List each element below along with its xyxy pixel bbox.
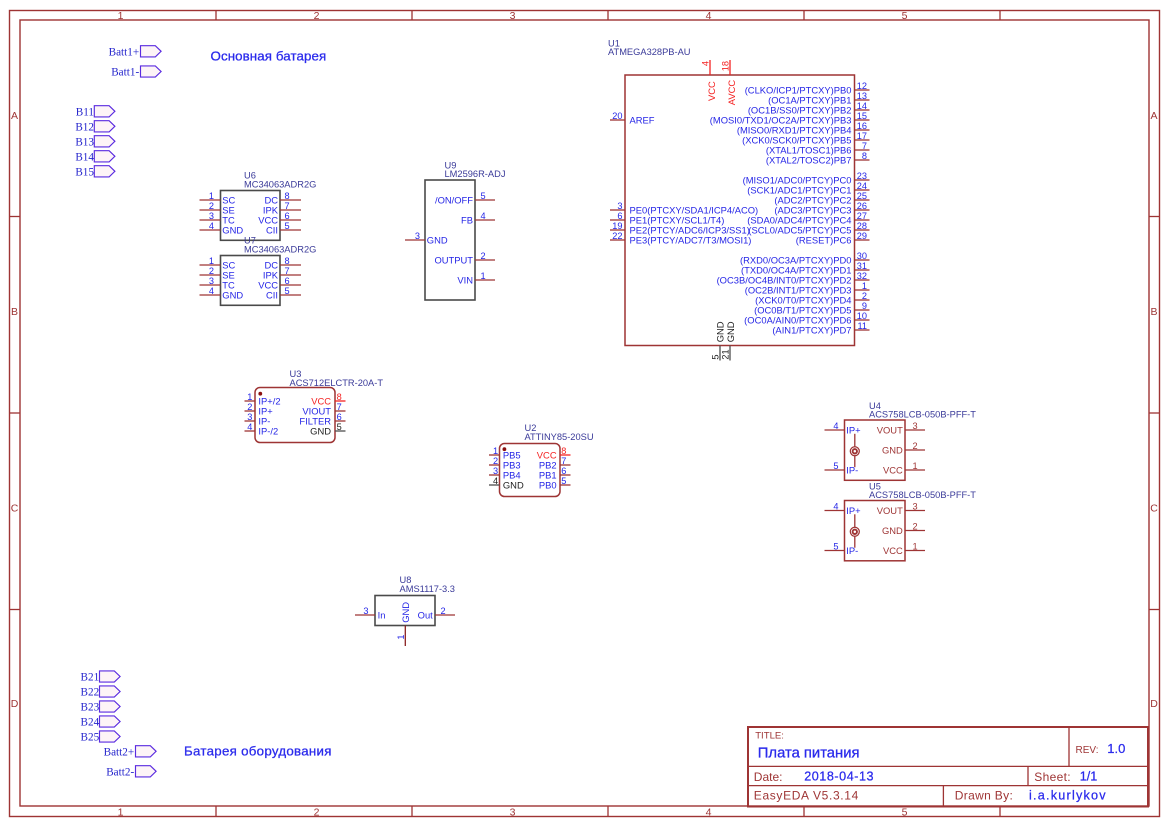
svg-text:AMS1117-3.3: AMS1117-3.3 xyxy=(400,584,455,594)
svg-text:PB0: PB0 xyxy=(539,480,557,491)
U4 pin 3 (VOUT) xyxy=(877,421,925,436)
svg-text:/ON/OFF: /ON/OFF xyxy=(435,195,473,206)
svg-text:1: 1 xyxy=(209,256,214,266)
U6 pin 1 (SC) xyxy=(200,191,236,206)
svg-text:3: 3 xyxy=(493,466,498,476)
U8 pin 2 (Out) xyxy=(418,606,455,621)
svg-text:B25: B25 xyxy=(81,732,100,744)
svg-text:Плата питания: Плата питания xyxy=(758,745,860,761)
net port B12 xyxy=(75,121,115,134)
frame bottom ruler ticks xyxy=(216,806,1000,817)
U9 pin 1 (VIN) xyxy=(457,271,495,286)
U7 pin 2 (SE) xyxy=(200,266,235,281)
svg-text:1: 1 xyxy=(209,191,214,201)
svg-text:(AIN1/PTCXY)PD7: (AIN1/PTCXY)PD7 xyxy=(772,325,851,336)
U9 pin 2 (OUTPUT) xyxy=(434,251,495,266)
svg-text:OUTPUT: OUTPUT xyxy=(434,255,473,266)
svg-text:TITLE:: TITLE: xyxy=(755,731,784,742)
IC body U1 xyxy=(625,75,855,346)
svg-text:7: 7 xyxy=(862,141,867,151)
U6 pin 2 (SE) xyxy=(200,201,235,216)
svg-text:4: 4 xyxy=(493,476,498,486)
U4 pin 5 (IP-) xyxy=(825,461,859,476)
svg-text:25: 25 xyxy=(857,191,867,201)
net port B24 xyxy=(81,716,121,729)
svg-text:1: 1 xyxy=(481,271,486,281)
svg-text:3: 3 xyxy=(510,10,516,22)
svg-text:3: 3 xyxy=(415,231,420,241)
svg-text:(RESET)PC6: (RESET)PC6 xyxy=(796,235,852,246)
svg-text:ACS758LCB-050B-PFF-T: ACS758LCB-050B-PFF-T xyxy=(869,490,976,500)
svg-text:GND: GND xyxy=(400,602,411,623)
svg-text:3: 3 xyxy=(913,421,918,431)
U1 pin 13 ((OC1A/PTCXY)PB1) xyxy=(768,91,869,106)
U1 pin 19 (PE2(PTCY/ADC6/ICP3/SS1)) xyxy=(610,221,750,236)
U5 pin 1 (VCC) xyxy=(883,541,925,556)
U6 pin 3 (TC) xyxy=(200,211,236,226)
svg-text:Drawn By:: Drawn By: xyxy=(955,789,1013,803)
svg-text:2: 2 xyxy=(862,291,867,301)
U1 pin 14 ((OC1B/SS0/PTCXY)PB2) xyxy=(748,101,870,116)
svg-text:8: 8 xyxy=(862,151,867,161)
part reference U1 xyxy=(608,38,620,48)
svg-text:5: 5 xyxy=(833,541,838,551)
U1 pin 17 ((XCK0/SCK0/PTCXY)PB5) xyxy=(742,131,869,146)
svg-text:2: 2 xyxy=(913,521,918,531)
svg-text:5: 5 xyxy=(902,10,908,22)
svg-text:GND: GND xyxy=(882,445,903,456)
U1 pin 22 (PE3(PTCY/ADC7/T3/MOSI1)) xyxy=(610,231,751,246)
svg-text:FB: FB xyxy=(461,215,473,226)
frame left row letters A-D xyxy=(11,110,19,710)
U2 pin 4 (GND) xyxy=(489,476,524,491)
svg-text:VOUT: VOUT xyxy=(877,505,903,516)
IC body U2 xyxy=(500,444,561,497)
U5 pin 4 (IP+) xyxy=(825,501,862,516)
svg-text:(XTAL2/TOSC2)PB7: (XTAL2/TOSC2)PB7 xyxy=(766,155,852,166)
svg-text:Batt1+: Batt1+ xyxy=(109,46,140,58)
svg-text:2018-04-13: 2018-04-13 xyxy=(804,770,874,784)
U1 pin 18 (AVCC) xyxy=(721,60,737,105)
svg-text:4: 4 xyxy=(247,422,252,432)
svg-text:4: 4 xyxy=(706,10,712,22)
svg-text:LM2596R-ADJ: LM2596R-ADJ xyxy=(445,169,506,179)
title block sheet value 1/1 xyxy=(1080,770,1098,784)
U1 pin 26 ((ADC3/PTCY)PC3) xyxy=(774,201,869,216)
IC body U3 xyxy=(255,388,335,443)
svg-text:Batt2+: Batt2+ xyxy=(104,746,135,758)
svg-text:5: 5 xyxy=(711,354,721,359)
title block label REV: xyxy=(1076,745,1099,756)
svg-text:5: 5 xyxy=(285,286,290,296)
U2 pin 1 (PB5) xyxy=(489,446,521,461)
svg-text:ATTINY85-20SU: ATTINY85-20SU xyxy=(525,432,594,442)
svg-text:MC34063ADR2G: MC34063ADR2G xyxy=(244,245,316,255)
svg-text:ACS712ELCTR-20A-T: ACS712ELCTR-20A-T xyxy=(290,378,384,388)
svg-text:5: 5 xyxy=(337,422,342,432)
svg-text:4: 4 xyxy=(833,501,838,511)
U1 pin 27 ((SDA0/ADC4/PTCY)PC4) xyxy=(747,211,869,226)
svg-text:1: 1 xyxy=(396,634,406,639)
svg-text:9: 9 xyxy=(862,301,867,311)
U4 pin 1 (VCC) xyxy=(883,461,925,476)
U6 pin 4 (GND) xyxy=(200,221,244,236)
U1 pin 3 (PE0(PTCXY/SDA1/ICP4/ACO)) xyxy=(610,201,758,216)
U4 internal current loop symbol xyxy=(850,434,859,467)
svg-text:10: 10 xyxy=(857,311,867,321)
U1 pin 25 ((ADC2/PTCY)PC2) xyxy=(774,191,869,206)
svg-text:5: 5 xyxy=(481,191,486,201)
svg-text:6: 6 xyxy=(285,276,290,286)
svg-text:7: 7 xyxy=(561,456,566,466)
svg-text:GND: GND xyxy=(310,426,331,437)
U5 pin 3 (VOUT) xyxy=(877,501,925,516)
part value MC34063ADR2G of U7 xyxy=(244,245,316,255)
U2 pin-1 marker dot xyxy=(503,447,507,451)
part reference U4 xyxy=(869,401,881,411)
U6 pin 8 (DC) xyxy=(264,191,301,206)
svg-text:Date:: Date: xyxy=(754,770,783,784)
svg-text:6: 6 xyxy=(561,466,566,476)
U3 pin 4 (IP-/2) xyxy=(245,422,279,437)
frame right ruler ticks xyxy=(1149,217,1160,610)
part reference U9 xyxy=(445,161,457,171)
svg-text:7: 7 xyxy=(337,402,342,412)
U7 pin 4 (GND) xyxy=(200,286,244,301)
svg-text:24: 24 xyxy=(857,181,867,191)
svg-text:30: 30 xyxy=(857,251,867,261)
svg-text:21: 21 xyxy=(721,349,731,359)
frame top column numbers 1-5 xyxy=(118,10,908,22)
U1 pin 6 (PE1(PTCXY/SCL1/T4)) xyxy=(610,211,724,226)
IC body U5 xyxy=(845,501,906,561)
svg-text:B21: B21 xyxy=(81,672,100,684)
svg-text:In: In xyxy=(378,610,386,621)
svg-text:31: 31 xyxy=(857,261,867,271)
svg-text:4: 4 xyxy=(833,421,838,431)
svg-text:1.0: 1.0 xyxy=(1107,741,1125,756)
svg-text:Батарея оборудования: Батарея оборудования xyxy=(184,743,332,758)
svg-text:3: 3 xyxy=(209,211,214,221)
svg-text:8: 8 xyxy=(561,446,566,456)
title block author value i.a.kurlykov xyxy=(1029,789,1107,803)
svg-text:IP-/2: IP-/2 xyxy=(258,426,278,437)
svg-text:2: 2 xyxy=(314,10,320,22)
svg-text:27: 27 xyxy=(857,211,867,221)
svg-text:1: 1 xyxy=(913,461,918,471)
svg-text:B11: B11 xyxy=(76,106,94,118)
U3 pin 8 (VCC) xyxy=(311,392,345,407)
svg-text:GND: GND xyxy=(882,525,903,536)
frame bottom column numbers 1-5 xyxy=(118,806,908,818)
svg-text:B22: B22 xyxy=(81,687,100,699)
frame left ruler ticks xyxy=(10,217,21,610)
U9 pin 5 (/ON/OFF) xyxy=(435,191,495,206)
net port Batt1+ xyxy=(109,46,161,59)
net port B14 xyxy=(75,151,115,164)
svg-text:ACS758LCB-050B-PFF-T: ACS758LCB-050B-PFF-T xyxy=(869,409,976,419)
U1 pin 12 ((CLKO/ICP1/PTCXY)PB0) xyxy=(745,81,870,96)
part reference U6 xyxy=(244,171,256,181)
svg-text:MC34063ADR2G: MC34063ADR2G xyxy=(244,180,316,190)
svg-text:5: 5 xyxy=(902,806,908,818)
U3 pin 1 (IP+/2) xyxy=(245,392,281,407)
U1 pin 7 ((XTAL1/TOSC1)PB6) xyxy=(766,141,870,156)
svg-text:IP+: IP+ xyxy=(846,505,861,516)
svg-text:B12: B12 xyxy=(75,121,94,133)
U1 pin 24 ((SCK1/ADC1/PTCY)PC1) xyxy=(747,181,869,196)
svg-text:8: 8 xyxy=(337,392,342,402)
svg-text:Batt1-: Batt1- xyxy=(111,67,139,79)
svg-text:1: 1 xyxy=(913,541,918,551)
U1 pin 16 ((MISO0/RXD1/PTCXY)PB4) xyxy=(737,121,870,136)
net port B11 xyxy=(76,106,115,119)
svg-text:Out: Out xyxy=(418,610,434,621)
svg-text:AREF: AREF xyxy=(630,115,655,126)
U1 pin 31 ((TXD0/OC4A/PTCXY)PD1) xyxy=(741,261,869,276)
svg-text:GND: GND xyxy=(725,321,736,342)
svg-text:20: 20 xyxy=(612,111,622,121)
U1 pin 32 ((OC3B/OC4B/INT0/PTCXY)PD2) xyxy=(717,271,870,286)
U9 pin 3 (GND) xyxy=(405,231,448,246)
U3 pin 7 (VIOUT) xyxy=(302,402,345,417)
part value ACS758LCB-050B-PFF-T of U5 xyxy=(869,490,976,500)
svg-text:VCC: VCC xyxy=(883,465,903,476)
svg-text:2: 2 xyxy=(481,251,486,261)
title block label TITLE: xyxy=(755,731,784,742)
net port Batt2+ xyxy=(104,746,156,759)
U3 pin 3 (IP-) xyxy=(245,412,271,427)
U8 pin 1 (GND) xyxy=(396,602,411,646)
svg-text:B15: B15 xyxy=(75,166,94,178)
part reference U5 xyxy=(869,481,881,491)
svg-text:2: 2 xyxy=(209,201,214,211)
svg-text:4: 4 xyxy=(209,286,214,296)
U1 pin 30 ((RXD0/OC3A/PTCXY)PD0) xyxy=(740,251,869,266)
svg-text:1: 1 xyxy=(118,806,124,818)
svg-text:23: 23 xyxy=(857,171,867,181)
svg-text:1: 1 xyxy=(862,281,867,291)
svg-text:26: 26 xyxy=(857,201,867,211)
svg-text:2: 2 xyxy=(247,402,252,412)
svg-text:C: C xyxy=(1150,503,1158,515)
U1 pin 28 ((SCL0/ADC5/PTCY)PC5) xyxy=(748,221,869,236)
frame right row letters A-D xyxy=(1150,110,1158,710)
svg-text:IP+: IP+ xyxy=(846,425,861,436)
svg-text:VIN: VIN xyxy=(457,275,473,286)
U1 pin 29 ((RESET)PC6) xyxy=(796,231,870,246)
U3 pin 2 (IP+) xyxy=(245,402,274,417)
svg-text:28: 28 xyxy=(857,221,867,231)
svg-text:1: 1 xyxy=(118,10,124,22)
net port B21 xyxy=(81,671,121,684)
U7 pin 6 (VCC) xyxy=(258,276,301,291)
part value ACS712ELCTR-20A-T of U3 xyxy=(290,378,384,388)
svg-text:Основная батарея: Основная батарея xyxy=(211,48,327,63)
svg-text:GND: GND xyxy=(427,235,448,246)
svg-text:5: 5 xyxy=(561,476,566,486)
U2 pin 3 (PB4) xyxy=(489,466,521,481)
U1 pin 11 ((AIN1/PTCXY)PD7) xyxy=(772,321,869,336)
U1 pin 15 ((MOSI0/TXD1/OC2A/PTCXY)PB3) xyxy=(710,111,870,126)
U6 pin 7 (IPK) xyxy=(263,201,301,216)
svg-text:2: 2 xyxy=(441,606,446,616)
svg-text:CII: CII xyxy=(266,290,278,301)
svg-text:D: D xyxy=(11,698,19,710)
svg-text:3: 3 xyxy=(510,806,516,818)
IC body U9 xyxy=(425,180,475,300)
net port B23 xyxy=(81,701,121,714)
U7 pin 5 (CII) xyxy=(266,286,301,301)
svg-text:PE3(PTCY/ADC7/T3/MOSI1): PE3(PTCY/ADC7/T3/MOSI1) xyxy=(630,235,752,246)
U1 pin 8 ((XTAL2/TOSC2)PB7) xyxy=(766,151,870,166)
U6 pin 6 (VCC) xyxy=(258,211,301,226)
svg-text:3: 3 xyxy=(913,501,918,511)
U5 pin 5 (IP-) xyxy=(825,541,859,556)
svg-text:13: 13 xyxy=(857,91,867,101)
svg-text:C: C xyxy=(11,503,19,515)
svg-text:4: 4 xyxy=(701,61,711,66)
title block label Drawn By: xyxy=(955,789,1013,803)
U8 pin 3 (In) xyxy=(355,606,385,621)
svg-text:4: 4 xyxy=(706,806,712,818)
U6 pin 5 (CII) xyxy=(266,221,301,236)
title block label Date: xyxy=(754,770,783,784)
svg-text:A: A xyxy=(11,110,18,122)
svg-text:REV:: REV: xyxy=(1076,745,1099,756)
U1 pin 1 ((OC2B/INT1/PTCXY)PD3) xyxy=(745,281,870,296)
U2 pin 6 (PB1) xyxy=(539,466,571,481)
svg-text:3: 3 xyxy=(209,276,214,286)
svg-text:IP-: IP- xyxy=(846,545,858,556)
svg-text:2: 2 xyxy=(913,441,918,451)
svg-text:1/1: 1/1 xyxy=(1080,770,1098,784)
svg-text:Sheet:: Sheet: xyxy=(1034,770,1071,784)
U1 pin 20 (AREF) xyxy=(610,111,655,126)
svg-text:3: 3 xyxy=(363,606,368,616)
frame top ruler ticks xyxy=(216,11,1000,21)
svg-text:15: 15 xyxy=(857,111,867,121)
U5 pin 2 (GND) xyxy=(882,521,925,536)
U1 pin 5 (GND) xyxy=(711,321,726,360)
U3 pin 5 (GND) xyxy=(310,422,345,437)
U7 pin 1 (SC) xyxy=(200,256,236,271)
svg-text:7: 7 xyxy=(285,266,290,276)
IC body U8 xyxy=(375,596,435,626)
part value AMS1117-3.3 of U8 xyxy=(400,584,455,594)
svg-text:B: B xyxy=(11,306,18,318)
IC body U4 xyxy=(845,420,906,480)
U4 pin 4 (IP+) xyxy=(825,421,862,436)
title block revision value 1.0 xyxy=(1107,741,1125,756)
svg-text:GND: GND xyxy=(503,480,524,491)
svg-text:2: 2 xyxy=(493,456,498,466)
part value LM2596R-ADJ of U9 xyxy=(445,169,506,179)
text label Батарея оборудования xyxy=(184,743,332,758)
svg-text:6: 6 xyxy=(285,211,290,221)
U1 pin 10 ((OC0A/AIN0/PTCXY)PD6) xyxy=(744,311,869,326)
svg-text:12: 12 xyxy=(857,81,867,91)
svg-text:4: 4 xyxy=(481,211,486,221)
net port B22 xyxy=(81,686,121,699)
title block grid xyxy=(748,727,1148,807)
svg-text:1: 1 xyxy=(247,392,252,402)
svg-text:18: 18 xyxy=(721,61,731,71)
part value MC34063ADR2G of U6 xyxy=(244,180,316,190)
part reference U3 xyxy=(290,369,302,379)
IC body U7 xyxy=(221,256,281,306)
U2 pin 2 (PB3) xyxy=(489,456,521,471)
net port Batt2- xyxy=(106,766,156,779)
title block date value 2018-04-13 xyxy=(804,770,874,784)
U7 pin 3 (TC) xyxy=(200,276,236,291)
part value ATMEGA328PB-AU of U1 xyxy=(608,47,691,57)
svg-text:1: 1 xyxy=(493,446,498,456)
svg-text:2: 2 xyxy=(314,806,320,818)
svg-text:B14: B14 xyxy=(75,151,94,163)
U1 pin 9 ((OC0B/T1/PTCXY)PD5) xyxy=(754,301,869,316)
svg-text:B23: B23 xyxy=(81,702,100,714)
U2 pin 7 (PB2) xyxy=(539,456,571,471)
svg-text:B: B xyxy=(1150,306,1157,318)
U4 pin 2 (GND) xyxy=(882,441,925,456)
svg-text:VOUT: VOUT xyxy=(877,425,903,436)
U7 pin 8 (DC) xyxy=(264,256,301,271)
svg-text:7: 7 xyxy=(285,201,290,211)
svg-text:17: 17 xyxy=(857,131,867,141)
svg-text:4: 4 xyxy=(209,221,214,231)
svg-text:5: 5 xyxy=(285,221,290,231)
U3 pin-1 marker dot xyxy=(258,392,262,396)
title block label Sheet: xyxy=(1034,770,1071,784)
svg-text:GND: GND xyxy=(222,225,243,236)
svg-text:22: 22 xyxy=(612,231,622,241)
IC body U6 xyxy=(221,191,281,241)
svg-text:VCC: VCC xyxy=(706,81,717,101)
svg-text:B13: B13 xyxy=(75,136,94,148)
svg-text:8: 8 xyxy=(285,191,290,201)
U1 pin 2 ((XCK0/T0/PTCXY)PD4) xyxy=(755,291,869,306)
net port B13 xyxy=(75,136,115,149)
title block label EasyEDA V5.3.14 xyxy=(754,789,859,803)
part reference U7 xyxy=(244,236,256,246)
U2 pin 5 (PB0) xyxy=(539,476,571,491)
svg-text:11: 11 xyxy=(857,321,867,331)
svg-text:B24: B24 xyxy=(81,717,100,729)
part value ACS758LCB-050B-PFF-T of U4 xyxy=(869,409,976,419)
U5 internal current loop symbol xyxy=(850,514,859,547)
U3 pin 6 (FILTER) xyxy=(299,412,345,427)
svg-text:5: 5 xyxy=(833,461,838,471)
svg-text:GND: GND xyxy=(222,290,243,301)
svg-text:3: 3 xyxy=(617,201,622,211)
part value ATTINY85-20SU of U2 xyxy=(525,432,594,442)
U1 pin 4 (VCC) xyxy=(701,60,718,101)
svg-text:3: 3 xyxy=(247,412,252,422)
svg-text:6: 6 xyxy=(617,211,622,221)
svg-text:Batt2-: Batt2- xyxy=(106,766,134,778)
part reference U8 xyxy=(400,575,412,585)
svg-text:8: 8 xyxy=(285,256,290,266)
net port Batt1- xyxy=(111,66,161,79)
svg-text:A: A xyxy=(1150,110,1157,122)
svg-text:6: 6 xyxy=(337,412,342,422)
net port B15 xyxy=(75,166,115,179)
svg-text:16: 16 xyxy=(857,121,867,131)
text label Основная батарея xyxy=(211,48,327,63)
svg-text:i.a.kurlykov: i.a.kurlykov xyxy=(1029,789,1107,803)
svg-text:14: 14 xyxy=(857,101,867,111)
